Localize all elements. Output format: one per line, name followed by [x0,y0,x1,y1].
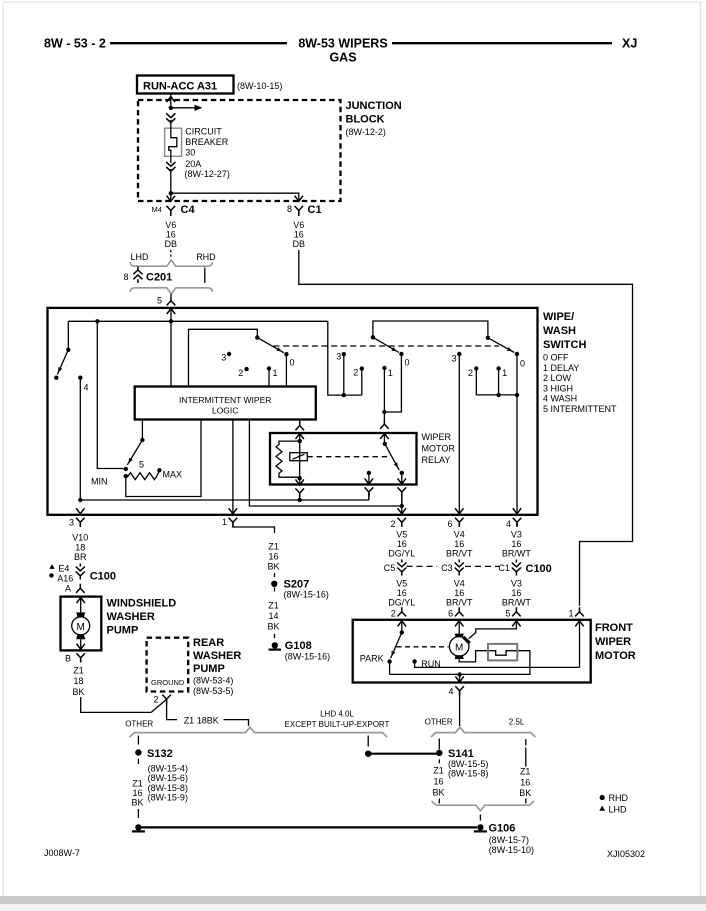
svg-text:5: 5 [139,460,144,470]
connector C100 dashed link [407,565,500,567]
connector chevrons C1 [512,560,521,576]
intermittent wiper logic box [135,387,316,420]
svg-text:16: 16 [520,778,530,788]
label out 1 [222,517,227,527]
label out 3 [69,518,74,528]
wire into breaker [170,120,172,127]
svg-text:1: 1 [502,368,507,378]
node pot wiper contact [124,467,128,471]
svg-text:(8W-15-4): (8W-15-4) [148,764,188,774]
wire S141 from brace [438,739,440,750]
wire C201 to switch [170,294,172,296]
svg-text:OTHER: OTHER [425,718,453,727]
node RUN-ACC A31 [137,76,234,94]
svg-text:XJI05302: XJI05302 [607,849,645,859]
svg-text:BR: BR [74,552,87,562]
wire branch right [171,107,196,109]
wire IWL out1 [232,420,234,514]
svg-text:LHD 4.0L: LHD 4.0L [320,710,354,719]
wire pole2 to relay [383,412,385,420]
page title right [622,37,637,51]
label pole2 contact 3 [336,351,341,361]
svg-text:RHD: RHD [609,793,629,803]
svg-text:V4: V4 [454,529,465,539]
wire dash S141 to brace [438,799,440,804]
svg-text:C1: C1 [308,204,322,216]
node pole3 contact 1 [496,366,500,370]
node pole1 contact 2 [244,367,248,371]
svg-text:EXCEPT BUILT-UP-EXPORT: EXCEPT BUILT-UP-EXPORT [285,720,390,729]
svg-text:16: 16 [454,588,464,598]
svg-text:C100: C100 [526,563,552,575]
svg-text:Z1: Z1 [520,767,531,777]
wire RUN to pin1 [415,662,580,668]
front wiper motor box [353,620,591,683]
svg-text:0: 0 [405,357,410,367]
svg-text:MOTOR: MOTOR [422,444,456,454]
header rule right [392,42,612,44]
svg-text:16: 16 [511,588,521,598]
connector pin A [76,584,85,593]
label pole1 contact 1 [273,368,278,378]
svg-text:18: 18 [75,543,85,553]
wire V6 label right [293,220,306,249]
connector motor pin 6 [455,607,464,616]
label 2.5L [509,718,525,727]
connector relay NO out [398,487,407,506]
svg-text:BK: BK [131,797,143,807]
connector C201 upper brace [130,260,212,266]
label LHD 4.0L [285,710,390,730]
wire dash to S207 [274,573,276,577]
svg-text:LHD: LHD [609,804,628,814]
connector out3 [76,518,85,527]
node pole1 contact 1 [267,366,271,370]
node relay coil top dot [298,439,302,443]
svg-text:BR/WT: BR/WT [502,549,531,559]
wire pole1 contact1 down [268,369,270,387]
wire stub dotted to C201 [170,250,172,259]
connector relay NC out [365,487,374,500]
label C3 [441,563,453,573]
legend dot A16 [49,573,53,577]
wire rear washer ground [167,699,177,719]
svg-text:4: 4 [448,687,453,697]
connector pin 2 rear washer [162,695,171,704]
node pole2 contact 1 [382,366,386,370]
motor front wiper [449,637,469,657]
wire B ground bus in switch [80,499,369,501]
svg-text:2 LOW: 2 LOW [543,373,572,383]
node pot left end [124,474,128,478]
svg-text:4 WASH: 4 WASH [543,394,577,404]
svg-text:20A: 20A [185,159,201,169]
svg-text:C100: C100 [90,571,116,583]
label S207 [284,579,310,591]
node pole3 contact 2 [474,366,478,370]
arrow out6 [455,508,463,514]
arrow motor pin1 [575,621,583,668]
arrow relay NC out [365,473,373,484]
label MAX [163,470,183,480]
svg-text:3: 3 [69,518,74,528]
label motor pin 5 [505,609,510,619]
svg-text:WASHER: WASHER [107,611,155,623]
svg-text:BR/WT: BR/WT [502,597,531,607]
label C100 mid [526,563,552,575]
svg-text:RELAY: RELAY [422,455,451,465]
node relay NC contact [367,471,371,475]
node pole1 contact 0 [284,352,288,356]
svg-text:CIRCUIT: CIRCUIT [185,126,222,136]
motor breaker outline [488,644,517,661]
node relay armature pivot [383,442,387,446]
node RUN contact [412,659,416,663]
svg-text:A: A [65,584,71,594]
label pole3 contact 3 [452,354,457,364]
page title left [44,37,106,51]
wire pole2 contacts join [384,354,401,412]
wire breaker to C4 [170,169,172,201]
arrow into relay armature [380,434,388,444]
svg-text:BK: BK [519,788,531,798]
label contact 4 [84,383,89,393]
svg-text:6: 6 [447,519,452,529]
svg-text:Z1: Z1 [268,542,279,552]
svg-text:WIPE/: WIPE/ [543,311,574,323]
node pot wiper pivot [140,438,144,442]
connector pin B [76,653,85,662]
wiper motor relay box [270,433,417,485]
svg-text:(8W-15-9): (8W-15-9) [148,793,188,803]
wire Z1 14 BK label [267,600,279,631]
svg-text:M: M [455,642,463,653]
wire pole2 feed corner [328,321,362,395]
label G106 refs [489,835,534,855]
page title center [298,37,387,65]
node pole3 bus dot1 [496,393,500,397]
node splice S141 [436,750,442,756]
front motor brush top [455,634,464,638]
node feed dot pot branch [95,319,99,323]
node PARK contact [387,659,391,663]
svg-text:5: 5 [157,296,162,306]
node motor ground dot [457,672,461,676]
node pole1 pivot [255,335,259,339]
svg-text:18: 18 [73,676,83,686]
label G106 [489,823,516,835]
label pole2 contact 1 [388,368,393,378]
node feed dot main [169,319,173,323]
svg-text:DB: DB [165,239,178,249]
node pole3 contact 3 [457,352,461,356]
wire pole1 contact0 down [285,354,287,386]
svg-text:BR/VT: BR/VT [446,597,473,607]
svg-text:GROUND: GROUND [151,678,185,687]
wire pin5 to brush [469,621,517,639]
svg-text:(8W-10-15): (8W-10-15) [237,81,282,91]
svg-text:Z1: Z1 [433,766,444,776]
wire pole3 contact3 down out6 [458,354,460,514]
connector motor pin 1 [575,607,584,616]
svg-text:0 OFF: 0 OFF [543,353,569,363]
connector chevrons below breaker [166,162,175,171]
arrow into C4 [167,196,175,202]
wire 2.5L branch [525,739,527,767]
node pole2 join dot [382,410,386,414]
label S132 refs [148,764,188,803]
connector relay coil out [295,488,304,500]
switch blade pole2 [373,337,399,352]
label S132 [147,748,173,760]
washer pump brush bottom [76,635,85,639]
svg-text:C3: C3 [441,563,453,573]
node park switch pivot [400,630,404,634]
relay coil suppression resistor [276,441,300,477]
label pin 2 rear washer [153,695,158,705]
svg-text:BLOCK: BLOCK [346,114,385,126]
svg-text:16: 16 [454,539,464,549]
svg-text:3 HIGH: 3 HIGH [543,383,573,393]
svg-text:PARK: PARK [360,654,384,664]
svg-text:(8W-15-8): (8W-15-8) [148,783,188,793]
legend LHD [599,804,627,814]
arrow right [195,105,203,111]
arrow motor pin5 [512,621,520,627]
svg-text:1: 1 [388,368,393,378]
label motor pin 1 [568,609,573,619]
label OTHER left [125,720,153,729]
label pole1 contact 0 [290,357,295,367]
arrow relay coil out [296,478,304,485]
svg-text:Z1: Z1 [268,600,279,610]
node contact 4 [78,376,82,380]
svg-text:(8W-12-27): (8W-12-27) [185,169,230,179]
node pole2 contact 2 [360,366,364,370]
svg-text:5: 5 [505,609,510,619]
label RHD [196,252,216,262]
arrow into junction block [167,97,175,103]
svg-text:0: 0 [290,357,295,367]
svg-text:JUNCTION: JUNCTION [346,100,402,112]
svg-text:1: 1 [222,517,227,527]
svg-text:OTHER: OTHER [125,720,153,729]
switch blade pole1 [257,338,284,353]
label G108 ref [285,652,330,662]
connector into relay coil [295,421,304,430]
rear washer pump dashed box [147,638,189,692]
wire contact 4 down [79,378,81,500]
node pole2 contact 0 [399,352,403,356]
node splice S207 [271,581,277,587]
arrow relay NO out [398,473,406,484]
svg-text:0: 0 [520,359,525,369]
label MIN [91,476,108,486]
brace OTHER/2.5L [431,727,536,737]
circuit breaker label [185,126,230,179]
relay mechanical link dashed [307,456,390,458]
svg-text:16: 16 [268,552,278,562]
svg-text:6: 6 [448,609,453,619]
wire dash 2.5L to brace [525,799,527,804]
wire relay coil [299,441,301,478]
label S141 refs [448,759,488,779]
svg-text:(8W-15-7): (8W-15-7) [489,835,529,845]
svg-text:DG/YL: DG/YL [388,549,415,559]
label E4 [58,564,69,574]
label motor pin 6 [448,609,453,619]
svg-text:(8W-15-10): (8W-15-10) [489,845,534,855]
legend triangle E4 [49,564,54,569]
svg-text:16: 16 [397,588,407,598]
svg-text:BK: BK [432,787,444,797]
svg-text:(8W-15-5): (8W-15-5) [448,759,488,769]
node wire B dot contact4 [78,498,82,502]
label pin B [65,654,71,664]
node junction dot A31 [169,106,173,110]
arrow motor pin2 [398,621,406,631]
node relay NO contact [400,471,404,475]
svg-text:GAS: GAS [329,51,356,65]
connector out1 [229,518,238,527]
svg-text:2: 2 [468,368,473,378]
svg-text:MOTOR: MOTOR [595,650,636,662]
svg-text:LOGIC: LOGIC [212,406,238,416]
svg-text:FRONT: FRONT [595,622,633,634]
node ground G108 [269,642,281,649]
wire V4 BR/VT lower label [446,578,473,607]
label pole3 contact 2 [468,368,473,378]
brace LHD/OTHER [130,727,388,737]
svg-text:BK: BK [267,621,279,631]
svg-text:WIPER: WIPER [422,432,452,442]
connector chevrons C5 [397,560,406,576]
arrow into relay coil [296,434,304,442]
connector motor pin 2 [398,607,407,616]
svg-text:WINDSHIELD: WINDSHIELD [107,598,177,610]
svg-text:2: 2 [353,368,358,378]
node ground G106 [474,824,487,831]
svg-text:14: 14 [268,611,278,621]
node pole2 pivot [371,335,375,339]
label GROUND [151,678,185,687]
connector out2 [398,518,407,527]
svg-text:(8W-15-16): (8W-15-16) [285,652,330,662]
wire dash below S132 [137,759,139,765]
svg-text:2: 2 [153,695,158,705]
svg-text:V10: V10 [72,533,88,543]
wire Z1 16 BK label 2.5L [519,767,531,799]
windshield washer pump box [61,597,102,651]
wire out2 from relay [401,506,403,514]
wiper motor relay label [422,432,456,465]
junction block label [346,100,402,137]
wire dash to S132 [137,736,139,745]
label pin A [65,584,71,594]
node pole3 contact 0 [515,352,519,356]
connector chevrons C201 [133,267,142,284]
label pot 5 [139,460,144,470]
node wire D relay dot [400,504,404,508]
wire V3 BR/WT lower label [502,578,531,607]
connector chevrons C100 out3 [76,564,85,580]
wire Z1 18 BK label [72,666,84,697]
node pot MAX end [157,468,161,472]
brace to G106 [432,801,535,811]
wire V6 label left [165,220,178,249]
switch blade pole3 [488,338,514,353]
arrow out1 [229,508,237,514]
label pole2 contact 2 [353,368,358,378]
node relay coil bottom dot [298,476,302,480]
arrow into washer pump [77,598,85,613]
wire out1 jog to S207 [233,522,275,533]
connector motor pin4 [455,686,464,696]
wire pole2 contact2 down [361,369,363,396]
wire washer pump ground [81,697,152,712]
wire IWL feed [170,321,172,386]
wire dash below S207 [274,588,276,592]
svg-text:MIN: MIN [91,476,108,486]
svg-text:3: 3 [336,351,341,361]
node pole1 contact 3 [227,352,231,356]
svg-text:16: 16 [132,788,142,798]
svg-text:REAR: REAR [193,637,224,649]
wire dash below S141 [438,759,440,763]
label pole2 contact 0 [405,357,410,367]
wire dash to G106 [479,815,481,821]
legend RHD [600,793,629,803]
svg-text:M: M [77,622,85,633]
svg-text:(8W-15-6): (8W-15-6) [148,773,188,783]
svg-text:PUMP: PUMP [193,663,225,675]
switch mechanical link dashed [274,345,500,347]
label (8W-10-15) [237,81,282,91]
label XJI05302 [607,849,645,859]
arrow motor pin4 out [455,674,463,682]
windshield washer pump label [107,598,177,637]
label pin 5 switch [157,296,162,306]
label C100 left [90,571,116,583]
svg-text:5 INTERMITTENT: 5 INTERMITTENT [543,404,617,414]
node wash pole pivot [66,348,70,352]
wire pot to IWL [126,420,201,497]
wire dash to G108 [274,634,276,638]
svg-text:BK: BK [267,562,279,572]
switch blade pot wiper [127,440,142,465]
svg-text:16: 16 [397,539,407,549]
connector chevrons C3 [455,560,464,576]
connector chevrons below junction [166,113,175,122]
svg-text:BREAKER: BREAKER [185,137,229,147]
node pole2 contact 3 [342,352,346,356]
label S141 [448,748,474,760]
node wire B dot coil [298,498,302,502]
svg-text:S132: S132 [147,748,173,760]
wire pole2-3 pivot bus [373,321,488,337]
switch position list [543,353,617,415]
wire motor breaker element [390,651,530,675]
svg-text:G108: G108 [285,640,312,652]
svg-text:1: 1 [273,368,278,378]
wire pot feed [97,321,123,468]
svg-text:C4: C4 [181,204,196,216]
svg-text:SWITCH: SWITCH [543,339,586,351]
wire pole3 contact0 down out4 [516,354,518,514]
front wiper motor label [595,622,636,662]
svg-text:4: 4 [84,383,89,393]
label OTHER right [425,718,453,727]
